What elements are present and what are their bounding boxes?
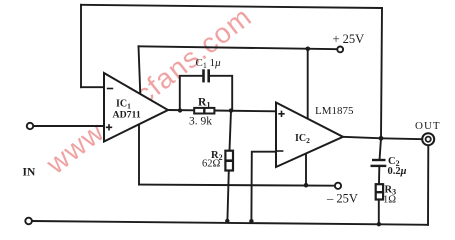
terminal IN- xyxy=(25,218,32,225)
resistor R2 xyxy=(225,151,233,171)
op-amp U2 IC2 LM1875 triangle xyxy=(276,103,343,168)
svg-text:IN: IN xyxy=(23,167,36,179)
terminal OUT outer xyxy=(422,133,434,145)
wire C2 to R3 xyxy=(378,167,380,184)
node output rail xyxy=(379,136,384,141)
node IC1 output xyxy=(178,108,182,112)
wire OUT down xyxy=(427,145,429,225)
node R2 ground xyxy=(225,219,229,223)
wire IC1 inverting input xyxy=(81,86,104,88)
wire R2 bottom xyxy=(227,171,228,221)
svg-text:– 25V: – 25V xyxy=(326,192,358,206)
terminal +25V xyxy=(337,47,343,53)
node R1/R2/IC2 xyxy=(229,108,233,112)
wire IC2 V- xyxy=(305,154,307,185)
terminal IN+ xyxy=(27,123,33,129)
wire R1 to IC2 + xyxy=(215,110,277,113)
node -25V rail xyxy=(304,183,309,188)
IC1 plus sign xyxy=(106,124,112,130)
node R3 ground xyxy=(377,222,381,226)
wire IN to IC1 + xyxy=(33,125,104,127)
svg-text:+ 25V: + 25V xyxy=(333,32,365,46)
capacitor C1 xyxy=(204,69,209,82)
wire C1 left leg xyxy=(180,76,203,111)
watermark www.elecfans.com xyxy=(40,1,258,181)
IC2 minus sign xyxy=(277,150,283,152)
wire +25V rail xyxy=(139,46,338,49)
wire IC2 inverting input xyxy=(251,152,276,221)
terminal -25V xyxy=(335,183,341,189)
resistor R3 xyxy=(376,184,383,199)
node +25V rail xyxy=(306,47,311,52)
wire OUT xyxy=(381,137,422,140)
node IC2 inv ground xyxy=(249,219,253,223)
wire right rail xyxy=(381,8,382,138)
svg-text:AD711: AD711 xyxy=(113,110,141,121)
svg-text:62Ω: 62Ω xyxy=(202,159,221,170)
resistor R1 xyxy=(194,108,214,114)
wire IC1 output to R1 xyxy=(168,109,194,111)
terminal OUT inner xyxy=(426,137,431,142)
svg-text:LM1875: LM1875 xyxy=(315,105,354,117)
wire R2 top xyxy=(230,111,232,151)
op-amp U1 IC1 AD711 triangle xyxy=(104,73,168,142)
wire R3 bottom xyxy=(378,200,380,225)
svg-text:1Ω: 1Ω xyxy=(383,194,396,205)
svg-text:C1 1μ: C1 1μ xyxy=(196,57,222,70)
wire feedback left vertical xyxy=(80,5,82,87)
wire IC1 V- xyxy=(138,124,140,184)
wire bottom return xyxy=(32,221,428,225)
IC1 minus sign xyxy=(107,88,113,90)
wire C2 top xyxy=(380,138,381,159)
wire -25V rail xyxy=(139,185,335,186)
wire C1 right leg xyxy=(210,76,232,111)
wire feedback top xyxy=(81,5,382,8)
wire IC2 V+ xyxy=(307,49,309,119)
svg-text:0.2μ: 0.2μ xyxy=(388,166,407,177)
capacitor C2 xyxy=(371,160,387,166)
svg-text:3. 9k: 3. 9k xyxy=(189,116,212,128)
svg-text:OUT: OUT xyxy=(415,120,441,132)
wire IC2 output xyxy=(343,137,381,139)
wire IC1 V+ xyxy=(139,46,141,94)
IC2 plus sign xyxy=(278,111,284,117)
